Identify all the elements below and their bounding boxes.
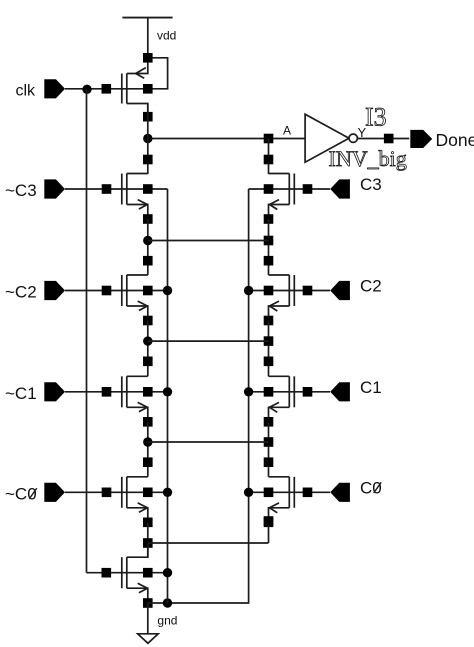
svg-text:vdd: vdd	[157, 29, 176, 43]
svg-text:C2: C2	[360, 277, 382, 296]
svg-text:C3: C3	[360, 175, 382, 194]
svg-text:A: A	[283, 124, 291, 138]
svg-text:C0: C0	[360, 479, 382, 498]
svg-text:Done: Done	[436, 130, 474, 150]
svg-text:clk: clk	[16, 82, 37, 99]
svg-text:~C0: ~C0	[5, 484, 37, 503]
svg-text:~C2: ~C2	[5, 283, 37, 302]
svg-text:~C3: ~C3	[5, 181, 37, 200]
svg-text:C1: C1	[360, 378, 382, 397]
svg-text:~C1: ~C1	[5, 384, 37, 403]
svg-text:gnd: gnd	[157, 614, 177, 628]
svg-text:I3: I3	[365, 102, 387, 131]
svg-text:INV_big: INV_big	[329, 146, 407, 171]
